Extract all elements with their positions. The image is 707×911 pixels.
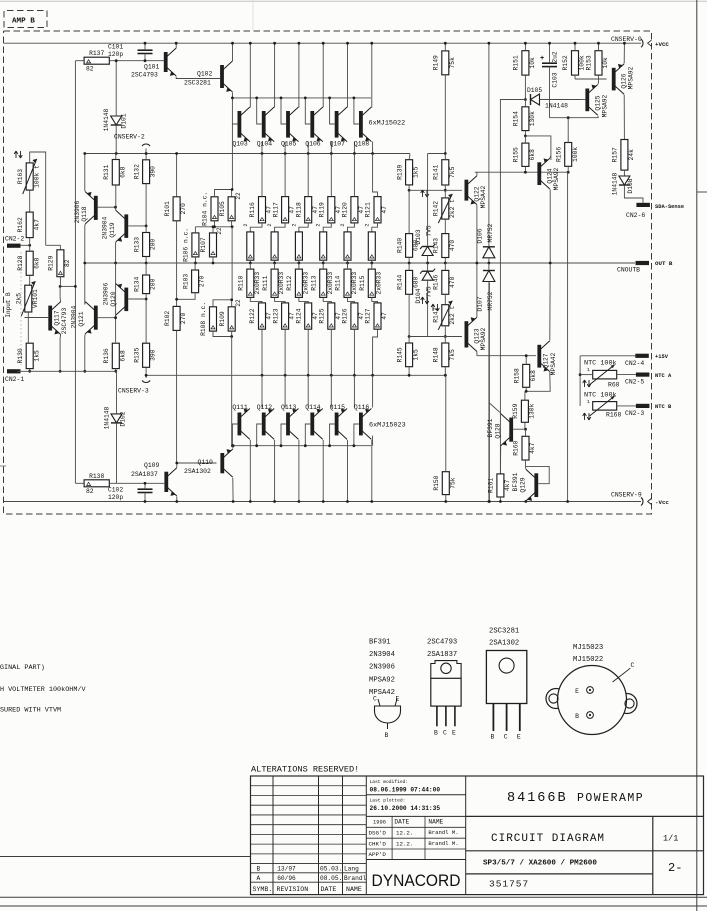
transistor Q127 MPSA42 — [526, 262, 557, 392]
svg-text:2N3904: 2N3904 — [369, 651, 395, 659]
svg-text:R102: R102 — [164, 311, 171, 326]
svg-text:SDA-Sense: SDA-Sense — [655, 204, 684, 210]
svg-text:1k5: 1k5 — [413, 349, 420, 361]
revision row B — [257, 866, 360, 873]
svg-text:2SC3281: 2SC3281 — [184, 80, 211, 87]
wire input ground line — [17, 370, 117, 372]
wire lower base rail — [233, 445, 371, 447]
svg-text:82: 82 — [86, 488, 94, 495]
connector CN2-1 — [5, 369, 24, 383]
svg-text:D106: D106 — [477, 228, 484, 243]
svg-text:R157: R157 — [612, 147, 619, 162]
svg-text:R159: R159 — [512, 403, 519, 418]
svg-text:200: 200 — [150, 278, 157, 290]
svg-text:MPSA42: MPSA42 — [550, 352, 557, 375]
svg-text:C: C — [504, 734, 508, 741]
capacitor C101 — [108, 42, 153, 62]
resistor R120 — [340, 154, 365, 232]
diode D107 MR752 — [477, 263, 495, 503]
resistor R149 — [433, 42, 456, 155]
svg-text:6k8: 6k8 — [530, 370, 537, 382]
svg-text:A: A — [257, 875, 261, 882]
svg-text:6xMJ15023: 6xMJ15023 — [369, 422, 406, 430]
svg-text:7V5: 7V5 — [426, 225, 433, 237]
resistor R109 — [219, 298, 242, 338]
svg-text:C103: C103 — [552, 72, 559, 87]
resistor R118 — [291, 154, 318, 232]
svg-text:Q106: Q106 — [305, 141, 321, 148]
svg-text:1N4148: 1N4148 — [104, 406, 111, 429]
label TO-247 types — [489, 628, 519, 648]
svg-text:C: C — [631, 662, 635, 669]
svg-text:R112: R112 — [286, 275, 293, 290]
svg-text:120p: 120p — [108, 51, 123, 58]
svg-text:1996: 1996 — [373, 820, 386, 826]
resistor R140 — [396, 190, 419, 264]
svg-text:MPSA92: MPSA92 — [602, 94, 609, 117]
svg-text:60/96: 60/96 — [277, 875, 296, 882]
AMP B label box — [4, 11, 47, 28]
svg-text:10k: 10k — [602, 57, 609, 69]
wire bias bus lower — [232, 337, 235, 448]
page right frame line — [697, 0, 707, 911]
transistor Q120 2N3906 — [103, 282, 147, 315]
svg-text:Q114: Q114 — [305, 404, 321, 411]
svg-text:NTC A: NTC A — [655, 373, 672, 379]
dashed amplifier boundary AMP B — [4, 31, 652, 514]
resistor 0R33 upper R115 — [368, 232, 375, 265]
label approvals header — [373, 819, 444, 826]
svg-text:05.03.: 05.03. — [320, 866, 342, 873]
transistor Q118 2N3906 — [74, 152, 117, 304]
wire buffer emitter bus — [115, 263, 117, 342]
svg-text:-Vcc: -Vcc — [655, 499, 669, 506]
svg-text:CNSERV-2: CNSERV-2 — [114, 134, 145, 141]
svg-text:R118: R118 — [295, 202, 302, 217]
thermistor R68 NTC 100k — [580, 360, 636, 389]
wire bias bus upper — [195, 124, 233, 300]
note vtvm — [0, 707, 61, 715]
node emitter Q108 — [371, 152, 374, 155]
svg-text:NAME: NAME — [428, 819, 443, 826]
svg-text:ALTERATIONS RESERVED!: ALTERATIONS RESERVED! — [251, 765, 359, 775]
svg-text:Input B: Input B — [5, 292, 12, 318]
wire Q125 emitter line — [550, 116, 599, 119]
potentiometer R147 — [421, 297, 456, 338]
transistor Q107 MJ15022 — [328, 42, 354, 154]
resistor R135 — [133, 343, 156, 378]
potentiometer R142 — [421, 190, 456, 234]
svg-text:R126: R126 — [342, 308, 349, 323]
svg-text:6xMJ15022: 6xMJ15022 — [369, 120, 406, 128]
svg-text:08.06.1999 07:44:00: 08.06.1999 07:44:00 — [370, 787, 441, 794]
wire right misc bus — [488, 172, 569, 503]
diode D102 — [104, 371, 127, 483]
svg-text:R155: R155 — [513, 147, 520, 162]
diode D106 MR752 — [477, 42, 495, 265]
transistor Q122 MPSA42 — [465, 172, 488, 208]
label TO-3 types — [573, 644, 603, 664]
svg-text:2k2 t: 2k2 t — [449, 199, 456, 218]
resistor R159 — [512, 391, 535, 430]
label CHK'D row — [369, 840, 459, 848]
svg-text:Q121: Q121 — [78, 311, 85, 326]
resistor R133 — [133, 226, 156, 265]
svg-text:BF391: BF391 — [487, 418, 494, 437]
svg-text:120p: 120p — [108, 494, 123, 501]
resistor R160 — [513, 429, 536, 466]
svg-text:MR752: MR752 — [487, 291, 494, 310]
resistor R158 — [513, 354, 536, 392]
connector CN2-4 +15V — [625, 354, 669, 367]
svg-text:R114: R114 — [335, 275, 342, 290]
potentiometer VR101 — [16, 281, 39, 343]
svg-text:NTC B: NTC B — [655, 404, 672, 410]
wire input dashed link — [20, 252, 22, 365]
label Input B — [5, 292, 12, 318]
svg-text:CN2-1: CN2-1 — [5, 376, 24, 383]
package TO-3 pins — [575, 662, 634, 720]
resistor R110 2x0R33 — [238, 263, 263, 303]
package TO-3 outline — [546, 666, 637, 735]
transistor Q119 2N3904 — [102, 207, 148, 264]
svg-text:CNSERV-9: CNSERV-9 — [611, 492, 642, 499]
node emitter Q105 — [307, 152, 310, 155]
svg-text:2N3904: 2N3904 — [71, 305, 78, 328]
svg-text:08.05.: 08.05. — [320, 875, 342, 882]
svg-text:R108 n.c.: R108 n.c. — [200, 302, 207, 336]
svg-text:R136: R136 — [103, 348, 110, 363]
svg-text:Q127: Q127 — [543, 353, 550, 368]
svg-text:R144: R144 — [396, 275, 403, 290]
svg-text:R156: R156 — [555, 147, 562, 162]
svg-text:Q119: Q119 — [109, 222, 116, 237]
svg-text:2SC4793: 2SC4793 — [61, 308, 68, 335]
svg-text:R120: R120 — [342, 202, 349, 217]
svg-text:CN2-6: CN2-6 — [626, 212, 645, 219]
resistor R113 2x0R33 — [310, 263, 333, 303]
svg-text:R128: R128 — [17, 255, 24, 270]
svg-text:270: 270 — [199, 276, 206, 288]
svg-text:R142: R142 — [433, 201, 440, 216]
svg-text:DATE: DATE — [321, 886, 337, 893]
wire R163 top link — [30, 152, 61, 245]
svg-text:Lang: Lang — [344, 866, 359, 873]
svg-text:SYMB.: SYMB. — [253, 886, 273, 893]
svg-text:351757: 351757 — [489, 879, 529, 890]
svg-text:1/1: 1/1 — [663, 834, 678, 844]
svg-text:2: 2 — [364, 223, 370, 226]
svg-text:D103: D103 — [415, 229, 422, 244]
svg-text:BF391: BF391 — [369, 639, 391, 647]
transistor Q102 — [184, 42, 234, 98]
svg-text:R150: R150 — [433, 475, 440, 490]
resistor R105 — [219, 190, 242, 227]
connector CN2-2 — [5, 236, 31, 248]
package TO-92 outline — [373, 696, 401, 740]
svg-text:CNOUTB: CNOUTB — [617, 267, 640, 274]
svg-text:CN2-5: CN2-5 — [625, 379, 644, 386]
svg-text:MR752: MR752 — [487, 223, 494, 242]
transistor Q108 MJ15022 — [353, 42, 374, 154]
wire base rail riser — [372, 436, 374, 446]
logo DYNACORD — [372, 871, 461, 890]
resistor R161 — [488, 474, 511, 503]
resistor R148 — [433, 337, 456, 377]
svg-text:R160: R160 — [513, 440, 520, 455]
svg-text:R104 n.c.: R104 n.c. — [202, 192, 209, 226]
diode D108 1N4148 — [612, 172, 644, 202]
label last modified — [370, 779, 441, 794]
svg-text:R113: R113 — [310, 275, 317, 290]
label CIRCUIT DIAGRAM — [491, 833, 605, 845]
svg-text:130k: 130k — [529, 403, 536, 418]
wire Q110 base link — [175, 462, 216, 465]
resistor R102 — [164, 306, 187, 463]
svg-text:Q104: Q104 — [257, 141, 273, 148]
svg-text:R68: R68 — [608, 382, 620, 389]
transistor Q106 MJ15022 — [304, 42, 331, 154]
svg-text:CHK'D: CHK'D — [369, 840, 387, 847]
svg-text:R129: R129 — [48, 255, 55, 270]
transistor Q104 MJ15022 — [255, 42, 285, 154]
resistor R137 — [75, 50, 164, 72]
svg-text:270: 270 — [180, 203, 187, 215]
resistor 0R33 upper R112 — [295, 232, 302, 265]
package TO-3 holes — [549, 694, 634, 708]
resistor R144 — [396, 263, 419, 338]
svg-text:Q118: Q118 — [81, 206, 88, 221]
svg-text:22: 22 — [235, 299, 242, 307]
svg-text:Brandl M.: Brandl M. — [428, 840, 458, 847]
resistor R112 2x0R33 — [286, 263, 309, 303]
transistor Q110 2SA1302 — [184, 446, 235, 503]
svg-text:CN2-3: CN2-3 — [625, 410, 644, 417]
transistor Q113 MJ15023 — [280, 375, 309, 503]
svg-text:Q108: Q108 — [354, 141, 370, 148]
resistor R104 n.c. — [202, 190, 232, 227]
svg-text:NAME: NAME — [346, 886, 362, 893]
svg-text:MPSA42: MPSA42 — [480, 185, 487, 208]
resistor R114 2x0R33 — [335, 263, 358, 303]
svg-text:B: B — [575, 713, 579, 720]
page top edge line — [0, 0, 707, 2]
svg-text:E: E — [517, 734, 521, 741]
resistor R157 — [612, 140, 635, 177]
node emitter Q104 — [284, 152, 287, 155]
svg-text:390: 390 — [150, 166, 157, 178]
svg-text:R121: R121 — [365, 202, 372, 217]
zener diode D104 7V5 — [415, 263, 439, 337]
wire output rail OUT B — [85, 262, 635, 264]
svg-text:R117: R117 — [272, 202, 279, 217]
svg-text:C: C — [373, 696, 377, 703]
svg-text:R151: R151 — [513, 55, 520, 70]
svg-text:75k: 75k — [449, 57, 456, 69]
svg-text:D102: D102 — [120, 411, 127, 426]
svg-text:1: 1 — [587, 399, 590, 405]
svg-text:R107: R107 — [200, 237, 207, 252]
node emitter Q103 — [261, 152, 264, 155]
svg-text:R127: R127 — [365, 308, 372, 323]
svg-text:100k t: 100k t — [33, 165, 40, 188]
connector CN2-5 NTC A — [625, 373, 672, 386]
wire feedback bus — [59, 61, 77, 484]
svg-text:2N3906: 2N3906 — [369, 664, 395, 672]
svg-text:Q102: Q102 — [197, 71, 213, 78]
svg-text:R152: R152 — [562, 55, 569, 70]
svg-text:D101: D101 — [121, 113, 128, 128]
svg-text:6k8: 6k8 — [529, 149, 536, 161]
svg-text:E: E — [396, 696, 400, 703]
svg-text:2x0R33: 2x0R33 — [278, 272, 285, 295]
svg-text:R103: R103 — [182, 274, 189, 289]
svg-text:B: B — [257, 866, 261, 873]
svg-text:2x0R33: 2x0R33 — [375, 272, 382, 295]
resistor 0R33 upper R111 — [271, 232, 278, 265]
svg-text:+15V: +15V — [655, 354, 669, 360]
svg-text:DYNACORD: DYNACORD — [372, 871, 461, 890]
resistor R108 n.c. — [200, 300, 232, 337]
label TO-92 types — [369, 639, 395, 698]
svg-text:Q116: Q116 — [354, 404, 370, 411]
svg-text:R106 n.c.: R106 n.c. — [183, 228, 190, 262]
svg-text:100k: 100k — [579, 55, 586, 70]
svg-text:B: B — [491, 734, 495, 741]
transistor Q123 MPSA92 — [465, 317, 488, 356]
svg-text:WITH VOLTMETER 100kOHM/V: WITH VOLTMETER 100kOHM/V — [0, 686, 87, 694]
resistor R116 — [243, 154, 273, 232]
resistor R127 — [365, 303, 388, 377]
diode D105 1N4148 — [527, 87, 581, 110]
svg-text:2: 2 — [267, 223, 273, 226]
svg-text:C: C — [443, 730, 447, 737]
capacitor C102 — [108, 482, 153, 503]
svg-text:R123: R123 — [272, 308, 279, 323]
svg-text:2N3906: 2N3906 — [74, 200, 81, 223]
svg-text:R119: R119 — [319, 202, 326, 217]
transistor Q128 BF391 — [487, 403, 526, 474]
svg-text:R130: R130 — [17, 348, 24, 363]
svg-text:MEASURED WITH VTVM: MEASURED WITH VTVM — [0, 707, 61, 715]
svg-text:R109: R109 — [219, 311, 226, 326]
wire Q123 base line — [409, 336, 462, 338]
resistor R134 — [133, 263, 156, 343]
label 351757 — [489, 879, 529, 890]
svg-text:470: 470 — [449, 240, 456, 252]
resistor R139 — [396, 154, 419, 192]
svg-text:Q129: Q129 — [520, 477, 527, 492]
transistor Q126 MPSA92 — [575, 42, 635, 140]
svg-text:13/97: 13/97 — [277, 866, 296, 873]
resistor R136 — [103, 343, 126, 372]
connector CN2-3 NTC B — [625, 404, 672, 417]
svg-text:4k7: 4k7 — [33, 219, 40, 231]
svg-text:R153: R153 — [586, 55, 593, 70]
resistor R131 — [103, 154, 126, 208]
resistor R101 — [164, 152, 187, 306]
svg-text:75k: 75k — [449, 477, 456, 489]
wire +VCC top rail — [4, 42, 642, 44]
svg-text:82: 82 — [64, 259, 71, 267]
transistor Q101 — [131, 42, 220, 79]
svg-text:Q120: Q120 — [110, 291, 117, 306]
package TO-247 outline — [486, 651, 526, 741]
svg-text:2N3904: 2N3904 — [102, 216, 109, 239]
transistor Q121 2N3904 — [71, 302, 118, 373]
svg-text:2SC4793: 2SC4793 — [131, 72, 158, 79]
svg-text:6k8: 6k8 — [33, 257, 40, 269]
svg-text:7k5: 7k5 — [449, 166, 456, 178]
svg-text:390: 390 — [150, 349, 157, 361]
svg-text:6k8: 6k8 — [119, 350, 126, 362]
svg-text:D108: D108 — [627, 178, 634, 193]
svg-text:1N4148: 1N4148 — [612, 172, 619, 195]
label 84166B POWERAMP — [507, 791, 644, 806]
svg-text:R161: R161 — [488, 478, 495, 493]
resistor 0R33 upper R114 — [344, 232, 351, 265]
svg-text:2SA1837: 2SA1837 — [427, 651, 457, 659]
resistor R132 — [133, 152, 156, 226]
svg-text:R101: R101 — [164, 201, 171, 216]
transistor Q115 MJ15023 — [328, 375, 354, 503]
svg-text:R162: R162 — [17, 217, 24, 232]
svg-text:MPSA92: MPSA92 — [553, 167, 560, 190]
svg-text:R132: R132 — [133, 164, 140, 179]
resistor R156 — [555, 118, 578, 173]
resistor R154 — [513, 100, 536, 138]
svg-text:BF391: BF391 — [512, 472, 519, 491]
svg-text:+VCC: +VCC — [655, 41, 669, 48]
wire Q124 base line — [475, 171, 570, 174]
svg-text:2-: 2- — [668, 861, 682, 875]
svg-text:2N3906: 2N3906 — [103, 282, 110, 305]
wire CN2-4 +15V line — [579, 356, 636, 406]
svg-text:2k5: 2k5 — [16, 293, 23, 305]
svg-text:1k5: 1k5 — [33, 350, 40, 362]
svg-text:2x0R33: 2x0R33 — [254, 272, 261, 295]
svg-text:R154: R154 — [513, 111, 520, 126]
svg-text:12.2.: 12.2. — [396, 840, 413, 847]
transistor Q112 MJ15023 — [255, 375, 285, 503]
wire VR101 wiper line — [25, 317, 49, 319]
svg-text:2SA1302: 2SA1302 — [489, 640, 519, 648]
svg-text:R149: R149 — [433, 55, 440, 70]
svg-text:R133: R133 — [133, 237, 140, 252]
svg-text:R131: R131 — [103, 164, 110, 179]
transistor Q125 MPSA92 — [581, 83, 609, 118]
svg-text:Last plotted:: Last plotted: — [370, 798, 406, 804]
resistor R153 — [586, 42, 609, 83]
resistor R107 — [200, 225, 223, 264]
wire Q109 base line — [122, 482, 164, 484]
resistor R141 — [433, 154, 456, 192]
svg-text:10k: 10k — [529, 57, 536, 69]
svg-text:22: 22 — [216, 227, 223, 235]
resistor 0R33 upper R110 — [247, 232, 254, 265]
svg-text:2x0R33: 2x0R33 — [351, 272, 358, 295]
label SP3/5/7 XA2600 PM2600 — [483, 860, 597, 868]
package TO-220 outline — [431, 661, 461, 737]
svg-text:R124: R124 — [295, 308, 302, 323]
svg-text:2x0R33: 2x0R33 — [327, 272, 334, 295]
transistor Q117 2SC4793 — [48, 286, 68, 372]
wire Q127 base line — [477, 355, 536, 357]
svg-text:Q111: Q111 — [232, 404, 248, 411]
label 6xMJ15023 — [369, 422, 406, 430]
resistor R152 — [562, 42, 585, 79]
connector CNSERV-9 — [611, 492, 669, 507]
